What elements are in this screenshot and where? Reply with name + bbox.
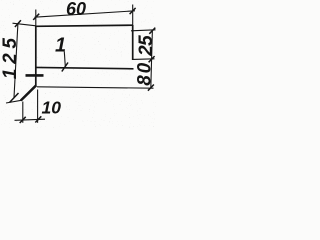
svg-text:80: 80 <box>135 62 156 85</box>
svg-text:1: 1 <box>55 35 66 57</box>
svg-text:125: 125 <box>0 38 21 79</box>
svg-text:10: 10 <box>42 97 62 117</box>
svg-text:25: 25 <box>136 35 156 57</box>
svg-text:60: 60 <box>66 0 86 19</box>
